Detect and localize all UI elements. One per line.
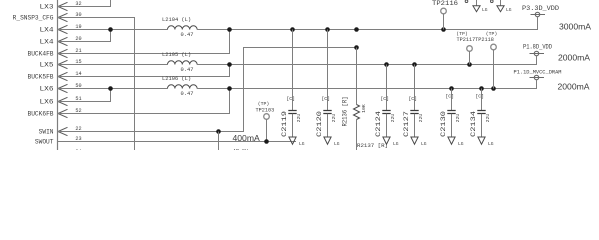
node divider tap [354,45,359,50]
svg-text:C2119: C2119 [281,110,288,137]
svg-text:L2105 (L): L2105 (L) [162,52,191,58]
svg-text:[C]: [C] [408,96,417,102]
svg-text:AP SW: AP SW [233,149,248,150]
ground C2130 [448,137,464,147]
svg-text:LG: LG [299,141,305,147]
wire flag A stub [537,17,539,29]
svg-text:[C]: [C] [445,93,454,99]
partial glyph top a [465,0,468,3]
svg-text:LX4: LX4 [40,27,54,34]
node rail A buck4fb [227,27,232,32]
svg-text:[C]: [C] [380,96,389,102]
svg-text:LG: LG [488,141,494,147]
svg-text:[C]: [C] [475,93,484,99]
capacitor C2130 [440,89,461,138]
svg-text:400mA: 400mA [233,133,260,143]
wire BUCK4FB to rail A [58,30,230,54]
svg-text:R_SNSP3_CFG: R_SNSP3_CFG [13,15,54,22]
node rail B C2127 [412,62,417,67]
pin 51 LX6 [40,96,82,106]
svg-text:LX5: LX5 [40,62,54,69]
svg-text:0.47: 0.47 [181,67,194,73]
wire SWIN to divider tap [58,48,357,132]
svg-text:BUCK4FB: BUCK4FB [28,51,54,58]
svg-text:25 4W 5W: 25 4W 5W [405,149,432,150]
svg-text:C2130: C2130 [440,110,447,137]
svg-text:22U: 22U [418,114,424,123]
svg-text:LG: LG [393,141,399,147]
svg-text:BUCK6FB: BUCK6FB [28,111,54,118]
pin 22 SWIN [39,126,82,136]
svg-text:[C]: [C] [286,96,295,102]
capacitor C2134 [470,89,491,138]
test point TP2117 [456,31,472,65]
svg-text:[C]: [C] [321,96,330,102]
wire flag B stub [536,56,538,64]
pin 14 BUCK5FB [28,71,82,81]
svg-text:TP2117TP2118: TP2117TP2118 [457,37,494,43]
test point TP2118 [486,31,498,89]
svg-text:P3.3D_VDD: P3.3D_VDD [522,5,559,12]
svg-text:0.47: 0.47 [181,91,194,97]
svg-text:TP2103: TP2103 [256,107,275,113]
svg-text:22U: 22U [485,114,491,123]
ground C2134 [478,137,494,147]
pin 32 LX3 [40,1,82,11]
wire BUCK5FB to rail B [58,65,230,77]
capacitor C2119 [281,30,302,138]
svg-text:LG: LG [334,141,340,147]
node SWOUT TP2103 [264,139,269,144]
node rail C C2134 [479,86,484,91]
svg-text:L2106 (L): L2106 (L) [162,76,191,82]
svg-text:LX6: LX6 [40,86,54,93]
partial glyph top b [491,0,494,3]
svg-text:C2120: C2120 [316,110,323,137]
svg-text:P1.1D_MVCC_DRAM: P1.1D_MVCC_DRAM [514,70,562,76]
wire flag C stub [536,80,538,88]
svg-text:22U: 22U [390,114,396,123]
svg-text:R2136 [R]: R2136 [R] [342,97,349,127]
svg-text:(TP): (TP) [258,101,270,107]
node LX4 join [108,27,113,32]
node rail A C2120 [325,27,330,32]
svg-text:C2134: C2134 [470,110,477,137]
test point TP2103 [256,101,275,142]
svg-text:BUCK5FB: BUCK5FB [28,74,54,81]
svg-text:SWOUT: SWOUT [35,139,54,146]
svg-text:R2137 [R]: R2137 [R] [357,143,388,149]
svg-text:10K: 10K [361,104,367,113]
ground top 2 [497,0,512,13]
svg-text:22U: 22U [331,114,337,123]
ground top 1 [473,0,488,13]
svg-text:22U: 22U [296,114,302,123]
ground C2127 [411,137,427,147]
wire BUCK6FB to rail C [58,89,230,114]
pin 20 LX4 [40,36,82,46]
ground C2120 [324,137,340,147]
capacitor C2124 [375,65,396,138]
svg-text:TP2116: TP2116 [432,0,458,7]
node rail B C2124 [384,62,389,67]
svg-text:2000mA: 2000mA [558,82,590,92]
wire R_SNSP3_CFG down [58,18,135,151]
node rail C TP2118 [491,86,496,91]
capacitor C2120 [316,30,337,138]
ground C2124 [383,137,399,147]
pin 21 BUCK4FB [28,48,82,58]
wire LX6 pin51 join [58,89,111,102]
svg-text:P1.8D_VDD: P1.8D_VDD [523,43,552,50]
wire SWOUT 400mA net [58,141,297,143]
test point TP2116 [432,0,458,30]
wire LX6 to L2106 [58,88,168,90]
pin 52 BUCK6FB [28,108,82,118]
svg-text:C2124: C2124 [375,110,382,137]
IC body edge [57,0,59,150]
svg-text:3000mA: 3000mA [559,22,591,32]
wire SWIN stub down [218,132,220,151]
svg-text:C2127: C2127 [403,110,410,137]
svg-text:SWIN: SWIN [39,129,54,136]
pin 15 LX5 [40,59,82,69]
wire rail A 3.3V [197,17,537,30]
inductor L2104 [168,26,198,30]
node rail B TP2117 [467,62,472,67]
node rail A TP2116 [441,27,446,32]
node LX6 join [108,86,113,91]
inductor L2105 [168,61,198,65]
wire LX5 to L2105 [58,64,168,66]
node rail A C2119 [290,27,295,32]
svg-text:0.47: 0.47 [181,32,194,38]
inductor L2106 [168,85,198,89]
pin 30 R_SNSP3_CFG [13,12,82,22]
node SWIN stub [216,129,221,134]
power flag P1.8D_VDD [523,43,552,55]
power flag P3.3D_VDD [522,5,559,17]
svg-text:L2104 (L): L2104 (L) [162,17,191,23]
node rail B buck5fb [227,62,232,67]
svg-text:LG: LG [506,7,512,13]
power flag P1.1D_MVCC_DRAM [514,70,562,80]
resistor R2136 [342,48,368,151]
pin 23 SWOUT [35,136,82,146]
wire LX4 pin20 join [58,30,111,42]
svg-text:2000mA: 2000mA [558,53,590,63]
svg-text:LG: LG [482,7,488,13]
svg-text:LX6: LX6 [40,99,54,106]
node rail C C2130 [449,86,454,91]
svg-text:LG: LG [458,141,464,147]
pin 50 LX6 [40,83,82,93]
svg-text:LG: LG [421,141,427,147]
svg-text:LX4: LX4 [40,39,54,46]
pin 19 LX4 [40,24,82,34]
wire LX3 to top [58,0,111,7]
ground C2119 [289,137,305,147]
wire rail C DRAM [197,80,536,89]
node rail A divider [354,27,359,32]
wire LX4 to L2104 [58,29,168,31]
node rail C buck6fb [227,86,232,91]
wire rail B 1.8V [197,56,536,65]
capacitor C2127 [403,65,424,138]
svg-text:LX3: LX3 [40,4,54,11]
svg-text:24: 24 [75,149,81,150]
svg-text:22U: 22U [455,114,461,123]
